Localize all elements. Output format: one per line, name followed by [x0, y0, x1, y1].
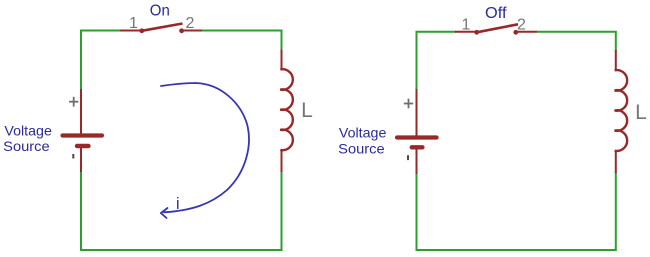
svg-text:Source: Source: [338, 140, 385, 156]
svg-text:i: i: [176, 194, 180, 213]
svg-text:1: 1: [462, 17, 471, 34]
svg-text:1: 1: [129, 15, 138, 32]
svg-text:Off: Off: [485, 5, 507, 22]
svg-text:2: 2: [186, 15, 195, 32]
svg-text:2: 2: [517, 17, 526, 34]
svg-text:Voltage: Voltage: [339, 125, 387, 141]
svg-text:L: L: [635, 101, 647, 124]
svg-text:L: L: [301, 99, 313, 122]
svg-text:On: On: [150, 2, 170, 19]
svg-text:Voltage: Voltage: [4, 123, 52, 139]
svg-text:Source: Source: [3, 138, 50, 154]
